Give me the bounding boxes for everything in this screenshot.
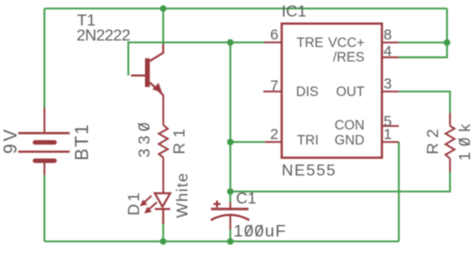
svg-text:White: White xyxy=(174,172,191,218)
wire collector drop from top net xyxy=(162,9,164,46)
resistor R1 xyxy=(159,97,168,193)
svg-text:CON: CON xyxy=(335,118,365,133)
pin 1 GND stub xyxy=(382,141,399,143)
svg-text:2: 2 xyxy=(270,126,278,143)
svg-text:2N2222: 2N2222 xyxy=(77,28,131,45)
wire C1 top to R2 bottom horizontal xyxy=(230,172,450,192)
svg-text:IC1: IC1 xyxy=(282,4,307,21)
svg-text:4: 4 xyxy=(384,43,392,60)
label 100uF xyxy=(234,222,287,241)
node C1 top junction xyxy=(227,188,234,195)
pin 5 CON stub xyxy=(382,125,399,127)
svg-text:R2: R2 xyxy=(425,124,442,154)
wire VCC to pin8 xyxy=(399,42,447,44)
resistor R2 xyxy=(446,113,455,172)
node TRI junction xyxy=(227,139,234,146)
op-amp-style IC box U IC1 NE555 xyxy=(282,24,382,158)
wire ground bottom horizontal xyxy=(44,240,398,242)
wire battery positive vertical xyxy=(43,9,45,109)
svg-text:8: 8 xyxy=(384,27,392,44)
wire GND from pin1 down xyxy=(398,142,400,241)
pin 4 RES stub xyxy=(382,56,399,58)
transistor Q T1 2N2222 xyxy=(131,44,163,97)
svg-text:/RES: /RES xyxy=(333,50,365,65)
svg-text:3: 3 xyxy=(384,76,392,93)
wire VCC top horizontal xyxy=(44,8,447,10)
wire C1 bottom to ground xyxy=(229,229,231,241)
svg-text:R1: R1 xyxy=(171,124,188,154)
battery BT1 xyxy=(18,108,69,176)
svg-text:6: 6 xyxy=(270,27,278,44)
svg-text:TRI: TRI xyxy=(297,133,319,148)
wire base net horizontal to TRE xyxy=(128,42,264,75)
pin 6 TRE stub xyxy=(264,41,282,43)
wire LED cathode to ground xyxy=(162,224,164,241)
pin 8 VCC stub xyxy=(382,42,399,44)
wire base net vertical to TRI and C1 xyxy=(229,42,231,191)
wire OUT to R2 top xyxy=(399,92,450,114)
node base net junction xyxy=(227,39,234,46)
node LED-ground junction xyxy=(160,238,167,245)
svg-text:TRE: TRE xyxy=(297,35,324,50)
svg-text:9V: 9V xyxy=(1,127,21,154)
node C1-ground junction xyxy=(227,238,234,245)
svg-text:GND: GND xyxy=(335,133,365,148)
LED D1 xyxy=(140,193,170,224)
svg-text:BT1: BT1 xyxy=(72,123,92,161)
wire VCC right vertical xyxy=(399,9,447,58)
svg-text:1: 1 xyxy=(384,126,392,143)
wire battery negative vertical xyxy=(43,175,45,241)
svg-text:NE555: NE555 xyxy=(282,163,337,180)
svg-text:C1: C1 xyxy=(236,191,257,208)
pin 2 TRI stub xyxy=(265,141,282,143)
svg-text:7: 7 xyxy=(270,78,278,95)
svg-text:VCC+: VCC+ xyxy=(328,35,365,50)
node collector junction on top net xyxy=(160,5,167,12)
svg-text:100uF: 100uF xyxy=(234,222,287,241)
node VCC-pin8 junction xyxy=(444,39,451,46)
wire C1 top lead xyxy=(229,192,231,203)
svg-text:D1: D1 xyxy=(126,190,143,215)
svg-text:OUT: OUT xyxy=(336,84,365,99)
svg-text:DIS: DIS xyxy=(296,84,319,99)
pin 3 OUT stub xyxy=(382,91,399,93)
capacitor C1 xyxy=(211,201,250,230)
label 330 xyxy=(136,118,153,157)
label 10k xyxy=(457,119,474,161)
pin 7 DIS stub xyxy=(263,91,281,93)
wire to TRI pin2 xyxy=(230,141,264,143)
